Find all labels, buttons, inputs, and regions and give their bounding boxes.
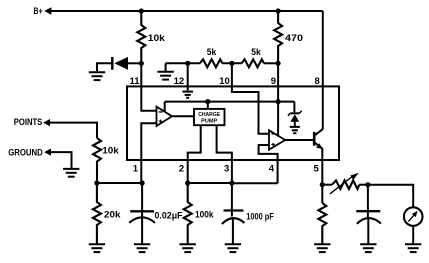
junction dot pin9 [276,61,281,66]
wire pin3 external [231,160,233,183]
transistor Q1 [314,129,323,185]
charge pump U1 block [194,109,225,125]
wire internal supply rail [165,101,295,103]
meter M1 [404,207,423,243]
svg-text:100k: 100k [195,209,214,219]
ground (C1) [134,244,150,252]
junction dot pin2/R7 [185,180,190,185]
wire pin8 vertical from rail [322,11,324,129]
ground (GROUND input) [63,169,79,177]
node POINTS arrow [43,119,50,126]
ground (R6 20k) [89,244,105,252]
wire POINTS input [49,123,97,138]
ground (5k chain left end) [157,63,173,79]
svg-text:GROUND: GROUND [8,147,43,157]
node GROUND arrow [44,149,51,156]
capacitor C3 [356,185,381,244]
wire 5k chain row [166,62,200,64]
svg-text:10: 10 [219,76,230,87]
svg-text:0.02μF: 0.02μF [155,211,183,221]
wire op-amp A1 output [172,115,194,117]
svg-text:4: 4 [269,164,275,175]
ground (zener) [290,127,300,133]
wire op-amp A2 plus feedback to pin4 [259,145,278,183]
svg-text:12: 12 [174,76,185,87]
op-amp A2 [269,130,285,149]
junction dot R5/R6 [94,180,99,185]
wire pin4 to pin3 node [232,182,278,184]
zener diode Z1 [288,102,302,126]
ground (R7 100k) [180,244,196,252]
junction dot rail/R1 [139,8,144,13]
wire bottom bus segment 2 [188,182,232,184]
junction dot pin10 [229,61,234,66]
svg-text:5k: 5k [251,47,261,57]
svg-text:10k: 10k [148,33,166,43]
junction dot pin1/C1 [140,180,145,185]
IC box U1 [127,86,339,160]
svg-text:20k: 20k [104,209,122,219]
wire top supply rail [50,10,323,12]
svg-text:5k: 5k [207,47,217,57]
svg-text:11: 11 [129,76,140,87]
wire pin11 external [140,63,142,110]
svg-text:2: 2 [179,164,184,175]
wire pin9 external [277,63,279,101]
ground (R8) [314,244,330,252]
resistor R5 10k (POINTS) [93,138,101,183]
wire charge pump supply stem [207,102,209,109]
wire op-amp A2 output to transistor base [285,139,313,141]
resistor R1 10k (top) [137,11,145,63]
resistor R3 5k [242,59,264,67]
svg-text:CHARGE: CHARGE [198,112,220,118]
resistor R7 100k [184,183,192,244]
svg-text:PUMP: PUMP [201,118,217,124]
wire pin12 external [187,63,189,91]
wire pin10 external+internal to op-amp minus [232,63,269,134]
svg-text:1: 1 [133,164,139,175]
capacitor C2 1000pF [222,183,245,244]
ground (meter M1) [405,244,421,252]
ground (C3) [360,244,376,252]
wire bottom bus segment 1 [97,182,142,184]
variable resistor R9 [322,173,368,194]
junction dot diode/pin11 [139,61,144,66]
wire pin11 internal to minus input [141,109,156,112]
resistor R6 20k [93,183,101,244]
resistor R2 5k [200,59,222,67]
wire to meter [368,185,413,207]
svg-text:10k: 10k [102,145,120,155]
svg-text:8: 8 [315,76,320,87]
junction dot pin12 [185,61,190,66]
wire supply drop to op-amp A1 [164,102,166,112]
junction dot charge pump supply [205,99,210,104]
svg-text:3: 3 [224,164,229,175]
node B+ arrow [44,7,51,15]
resistor R4 470 [274,11,282,63]
svg-text:470: 470 [285,33,303,43]
capacitor C1 0.02uF [129,183,155,244]
svg-text:1000 pF: 1000 pF [246,211,274,221]
junction dot R9/C3 [365,182,370,187]
wire pin1 internal to plus input [141,123,156,183]
wire 5k to pin9 node [264,62,278,64]
junction dot pin9 internal [276,99,281,104]
ground (C2) [225,244,241,252]
diode D1 [97,57,141,71]
wire pin2 external [187,160,189,183]
wire between 5k resistors [222,62,241,64]
wire charge pump leg to pin3 [217,125,232,160]
wire charge pump leg to pin2 [188,125,201,160]
svg-text:B+: B+ [34,6,43,16]
svg-text:9: 9 [271,76,276,87]
op-amp A1 [157,107,173,126]
wire pin9 to op-amp A2 top [277,102,279,136]
junction dot pin3/C2 [229,180,234,185]
wire GROUND input [50,152,72,168]
ground (pin12 internal) [182,92,193,98]
junction dot pin5/R8 [320,182,325,187]
junction dot rail/470 [276,8,281,13]
svg-text:POINTS: POINTS [14,117,43,127]
resistor R8 (pin5 load) [318,185,326,244]
ground (diode D1) [89,72,105,80]
svg-text:5: 5 [314,164,320,175]
